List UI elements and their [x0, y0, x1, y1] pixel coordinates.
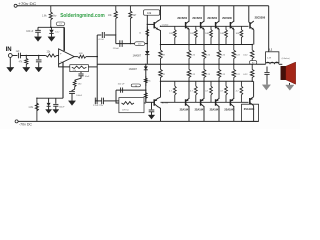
resistor R6 feedback shunt [73, 80, 76, 89]
wire zobel output drop [266, 67, 268, 73]
transistor Q3 2SC5200 [185, 22, 187, 28]
wire op-amp output [74, 56, 78, 58]
junction input network [26, 55, 27, 56]
bias preset box [144, 10, 160, 15]
svg-text:2SA1943: 2SA1943 [224, 107, 234, 111]
wire zener node [38, 26, 64, 28]
resistor R base 10R upper col2 [194, 26, 197, 44]
resistor R emitter 0.22 upper col2 [202, 45, 206, 65]
junction driver buses [160, 44, 162, 46]
svg-text:10k: 10k [147, 11, 152, 15]
resistor R9 bias [146, 27, 149, 44]
svg-text:0.22: 0.22 [243, 55, 248, 57]
resistor R base 10R upper col1 [173, 26, 176, 44]
transistor Q12 2SA1943 [249, 98, 251, 104]
wire feedback chain down [80, 72, 82, 74]
svg-text:5.1v: 5.1v [55, 32, 60, 34]
svg-text:4.7: 4.7 [220, 91, 224, 93]
ground C10 [53, 110, 59, 114]
svg-text:0.22: 0.22 [206, 55, 211, 57]
wire feedback box to node [88, 66, 97, 68]
wire Q3 collector from rail [188, 6, 190, 22]
capacitor C12 100uF series [120, 88, 122, 93]
terminal +70V supply [14, 4, 17, 7]
svg-text:0.22: 0.22 [221, 55, 226, 57]
resistor R emitter driver upper [159, 45, 163, 65]
junction output node [96, 56, 98, 58]
resistor R base 10R upper col4 [225, 26, 228, 44]
ground C8 [148, 115, 154, 119]
wire op-amp V- supply [62, 62, 64, 98]
svg-text:Solderingmind.com: Solderingmind.com [60, 13, 104, 19]
svg-text:1N4007: 1N4007 [133, 55, 142, 58]
resistor R4 output series [78, 55, 86, 58]
resistor R emitter driver lower [159, 64, 163, 81]
svg-text:+: + [60, 52, 62, 56]
svg-text:680: 680 [78, 84, 82, 86]
wire inverting input feedback [59, 64, 70, 67]
wire output bus [97, 63, 265, 65]
wire Q6 emitter to bus [233, 29, 235, 44]
capacitor C1 100uF [37, 27, 39, 30]
op-amp U1 [59, 49, 75, 64]
wire Q9 emitter to bus [203, 81, 205, 98]
svg-text:0.22: 0.22 [206, 74, 211, 76]
ground D1 [48, 37, 55, 42]
svg-text:10R: 10R [169, 33, 173, 35]
inductor L1 with damping resistor [266, 52, 279, 63]
wire C6 to corner [105, 35, 116, 44]
wire Q12 emitter to bus [253, 81, 255, 97]
junction bias lower [147, 43, 148, 44]
svg-text:2.2uF 275v: 2.2uF 275v [93, 105, 103, 107]
svg-text:+70v DC: +70v DC [18, 2, 37, 6]
svg-text:4k7: 4k7 [133, 15, 137, 17]
diode D2 1N4007 [146, 44, 148, 51]
resistor R emitter 0.22 upper col3 [217, 45, 221, 65]
label pill output [250, 61, 257, 65]
wire Q2 base [146, 101, 154, 103]
transistor Q7 2SC5200 [249, 22, 251, 28]
junction node zener [50, 27, 52, 29]
transistor Q4 2SC5200 [200, 22, 202, 28]
wire lower feedback corner [116, 90, 119, 103]
junction bias [130, 43, 131, 44]
resistor R7 10k from rail [114, 6, 117, 35]
svg-text:100uF: 100uF [76, 95, 83, 97]
svg-text:2SC5200: 2SC5200 [255, 16, 266, 20]
wire Q3 emitter to bus [188, 29, 190, 44]
wire zobel row [95, 98, 97, 101]
wire input jack ground [9, 57, 11, 67]
svg-text:2SA1943: 2SA1943 [244, 107, 255, 111]
resistor R emitter 0.22 lower col4 [232, 64, 236, 81]
svg-text:100uF: 100uF [59, 106, 65, 108]
transistor Q1 driver NPN [153, 22, 155, 28]
wire Q11 collector to rail [233, 107, 235, 122]
ground speaker [286, 85, 294, 90]
ground C1 [34, 37, 41, 42]
svg-text:100 uF: 100 uF [26, 31, 34, 33]
zener diode D4 [48, 98, 50, 103]
resistor R base 10R upper col3 [210, 26, 213, 44]
wire bus collector upper [161, 44, 254, 46]
wire Q2 collector to rail [158, 107, 161, 122]
svg-text:10R: 10R [205, 33, 209, 35]
wire speaker return [289, 83, 291, 85]
wire R4 to node [86, 56, 97, 58]
svg-text:5w: 5w [53, 15, 56, 18]
capacitor C8 [149, 109, 155, 111]
wire Q8 collector to rail [188, 107, 190, 122]
resistor R emitter 0.22 upper col5 [250, 45, 254, 65]
svg-text:0.22: 0.22 [221, 74, 226, 76]
svg-text:4.7uF: 4.7uF [98, 39, 104, 41]
wire Q8 emitter to bus [188, 81, 190, 98]
resistor R8 4k7 from rail [129, 6, 132, 44]
wire pill to bias riser [145, 43, 148, 45]
wire bias riser upper [146, 15, 148, 43]
wire lower feedback row [116, 89, 146, 91]
wire lower driver base stub [151, 102, 153, 109]
capacitor C10 100uF [55, 98, 57, 104]
svg-text:10uF: 10uF [85, 76, 90, 78]
svg-text:IN: IN [6, 47, 12, 53]
capacitor C6 4.7uF [101, 32, 103, 38]
wire Q1 emitter down [158, 29, 161, 44]
diode D3 1N4007 [144, 66, 148, 69]
svg-text:0.22: 0.22 [236, 55, 241, 57]
terminal -70V supply [15, 120, 18, 123]
svg-text:4.7: 4.7 [236, 91, 240, 93]
svg-text:10R: 10R [220, 33, 224, 35]
resistor R emitter 0.22 lower col2 [202, 64, 206, 81]
capacitor C7 220uF [119, 40, 121, 47]
resistor R base 10R upper col5 [240, 26, 243, 44]
svg-text:22k: 22k [73, 70, 76, 72]
svg-text:1R: 1R [162, 74, 165, 76]
resistor R1 1.8k 5w [49, 6, 52, 28]
transistor Q10 2SA1943 [215, 99, 217, 105]
wire Q12 collector down [253, 106, 255, 122]
svg-text:1k: 1k [135, 85, 137, 87]
resistor R10 lower bias upper [144, 76, 147, 86]
resistor R2 47k to ground [25, 56, 27, 59]
wire zobel box to bias [144, 102, 146, 104]
svg-text:2SA1943: 2SA1943 [180, 107, 190, 111]
svg-text:2SA1943: 2SA1943 [195, 107, 205, 111]
resistor R3 22k series [46, 54, 57, 57]
wire lower bias riser [145, 64, 147, 102]
svg-text:100 uF: 100 uF [118, 83, 125, 85]
wire bias row [116, 43, 135, 45]
resistor R10b lower bias [144, 90, 147, 102]
svg-text:2SA1943: 2SA1943 [210, 107, 220, 111]
svg-text:1k: 1k [148, 80, 151, 82]
wire positive rail [17, 5, 269, 7]
wire Q5 emitter to bus [218, 29, 220, 44]
wire VAS riser [96, 35, 98, 98]
junction bus col5 [251, 44, 253, 46]
wire Q9 collector to rail [203, 107, 205, 122]
wire upper base bus [161, 25, 249, 27]
junction negative node [36, 98, 37, 99]
svg-text:0.4R: 0.4R [267, 57, 272, 59]
resistor R11 1.8k [35, 98, 38, 121]
wire Q7 collector link [249, 22, 250, 23]
resistor R base 10R lower col4 [225, 81, 228, 102]
wire input to cap [12, 55, 17, 57]
label box op-amp supply [56, 22, 65, 26]
ground output zobel [262, 85, 270, 90]
svg-text:2SC5200: 2SC5200 [177, 16, 187, 20]
svg-text:10R: 10R [190, 33, 194, 35]
wire negative rail [18, 120, 258, 122]
wire op-amp V+ supply [63, 27, 65, 51]
label pill bias [135, 42, 145, 46]
svg-text:4.7: 4.7 [190, 91, 194, 93]
resistor R emitter 0.22 upper col1 [187, 45, 191, 65]
resistor R emitter 0.22 upper col4 [232, 45, 236, 65]
svg-text:1R: 1R [162, 55, 165, 57]
junction bus col1 [188, 44, 190, 46]
wire Q2 emitter up [158, 81, 161, 98]
label pill lower bias [131, 84, 140, 87]
wire rail drop to output network [268, 6, 270, 52]
svg-text:2SC5200: 2SC5200 [222, 16, 232, 20]
wire lower base bus [161, 101, 249, 103]
resistor R emitter 0.22 lower col5 [250, 64, 254, 81]
svg-text:0.22: 0.22 [191, 55, 196, 57]
capacitor C9 zobel [94, 98, 96, 105]
resistor R base 10R lower col3 [210, 81, 213, 102]
junction lower bias [145, 64, 146, 65]
svg-text:1N4007: 1N4007 [129, 68, 138, 71]
capacitor C3 to ground [38, 56, 40, 60]
output pair box [242, 104, 259, 121]
svg-text:2SC5200: 2SC5200 [207, 16, 217, 20]
wire Q6 collector from rail [233, 6, 235, 22]
capacitor C2 input coupling [17, 53, 19, 59]
svg-text:10R: 10R [236, 33, 240, 35]
capacitor C11 output zobel [264, 72, 269, 74]
wire Q4 collector from rail [203, 6, 205, 22]
capacitor C5 100uF shunt [72, 89, 75, 91]
svg-text:0.22: 0.22 [236, 74, 241, 76]
wire L1 to speaker [279, 63, 282, 65]
zener diode D1 [51, 27, 53, 30]
resistor R emitter 0.22 lower col3 [217, 64, 221, 81]
wire R3 to op-amp [57, 55, 59, 57]
svg-text:(0.4ohm): (0.4ohm) [282, 58, 290, 60]
wire negative bias node [37, 97, 63, 99]
zobel resistor box [119, 98, 144, 113]
junction bus col3 [218, 44, 220, 46]
transistor Q5 2SC5200 [215, 22, 217, 28]
svg-text:−: − [60, 60, 62, 64]
wire driver base [147, 23, 153, 25]
ground input jack [7, 67, 14, 72]
svg-text:1.8k: 1.8k [42, 15, 47, 18]
svg-text:1k: 1k [139, 33, 142, 35]
ground D4 [46, 110, 52, 114]
transistor Q6 2SC5200 [229, 22, 231, 28]
capacitor C4 feedback [78, 73, 83, 75]
transistor Q11 2SA1943 [229, 99, 231, 105]
junction driver emitter [160, 26, 161, 27]
svg-text:-70v DC: -70v DC [19, 122, 33, 126]
resistor R emitter 0.22 lower col1 [187, 64, 191, 81]
wire node to C6 [97, 34, 101, 36]
wire Q10 collector to rail [218, 107, 220, 122]
svg-text:L1: L1 [269, 49, 272, 52]
junction bus col4 [233, 44, 235, 46]
wire Q7 collector from rail [248, 6, 250, 22]
ground C5 [68, 101, 75, 106]
speaker SPK1 8 ohm [281, 66, 286, 79]
svg-text:22k: 22k [47, 52, 52, 54]
wire Q1 collector to rail [158, 6, 161, 21]
svg-text:10R 5w: 10R 5w [122, 109, 129, 111]
wire Q10 emitter to bus [218, 81, 220, 98]
terminal input jack [8, 54, 12, 58]
svg-text:1uF: 1uF [16, 51, 21, 53]
wire cap to R3 [20, 55, 45, 57]
svg-text:0.22: 0.22 [243, 74, 248, 76]
transistor Q9 2SA1943 [200, 99, 202, 105]
resistor R base 10R lower col5 [240, 81, 243, 102]
svg-text:0.22: 0.22 [191, 74, 196, 76]
wire bus collector lower [161, 80, 254, 82]
svg-text:1.8k: 1.8k [28, 106, 33, 109]
resistor R base 10R lower col1 [173, 81, 176, 102]
ground C3 [35, 67, 42, 72]
svg-text:47k: 47k [19, 62, 24, 64]
wire Q4 emitter to bus [203, 29, 205, 44]
resistor R base 10R lower col2 [194, 81, 197, 102]
svg-text:220uF: 220uF [113, 48, 120, 50]
wire Q11 emitter to bus [233, 81, 235, 98]
transistor Q8 2SA1943 [185, 99, 187, 105]
svg-text:4.7: 4.7 [169, 91, 173, 93]
transistor Q2 driver PNP [153, 99, 155, 105]
svg-text:10R: 10R [79, 53, 83, 55]
junction bus col2 [203, 44, 205, 46]
wire Q7 emitter to bus [253, 30, 255, 45]
wire Q5 collector from rail [218, 6, 220, 22]
ground R2 [23, 67, 30, 72]
svg-text:2SC5200: 2SC5200 [192, 16, 202, 20]
svg-text:4.7: 4.7 [205, 91, 209, 93]
feedback network box [70, 65, 89, 72]
svg-text:10k: 10k [108, 15, 113, 17]
